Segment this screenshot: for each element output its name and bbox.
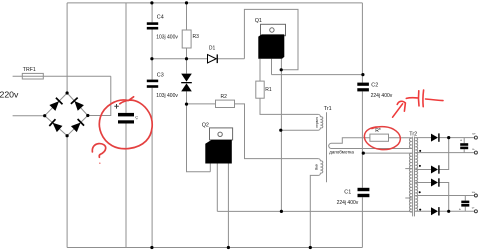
wire Tr2 tap6 to diode D8	[415, 210, 474, 212]
wire Tr2 tap4 to diode D7	[415, 183, 449, 212]
resistor R3	[182, 30, 191, 48]
annotation red question mark	[92, 144, 105, 164]
core Tr2	[413, 137, 415, 217]
bridge diode bottom-right	[71, 119, 84, 132]
wire Q1 leg3 vertical long	[280, 70, 282, 212]
svg-text:Q2: Q2	[202, 123, 209, 129]
annotation red circle around electrolytic	[99, 97, 152, 149]
diode D8 output 2	[431, 207, 438, 215]
transistor Q2	[210, 128, 233, 140]
wire R2 left tap	[187, 103, 216, 105]
svg-text:u-: u-	[472, 147, 475, 151]
winding Tr2 left stub a	[405, 168, 412, 170]
wire Q2 drain long line to Tr2 bottom	[217, 210, 412, 212]
svg-text:C3: C3	[157, 73, 164, 79]
wire Q1 leg 1 to R1	[259, 59, 261, 81]
svg-text:C4: C4	[157, 14, 164, 20]
wire top rail	[67, 2, 362, 4]
winding Tr2 left stub b	[405, 197, 412, 199]
svg-text:u+: u+	[472, 132, 476, 136]
plus mark of electrolytic	[114, 104, 119, 109]
svg-text:224j 400v: 224j 400v	[337, 200, 359, 206]
wire bridge diamond	[45, 93, 88, 136]
wire Q1 leg 2 drop	[271, 59, 273, 75]
svg-text:TRF1: TRF1	[23, 67, 36, 73]
svg-text:R1: R1	[265, 87, 272, 93]
wire Q1 collector loop	[244, 9, 298, 69]
diode D5 output 1	[431, 134, 438, 142]
diode D6	[431, 166, 438, 174]
winding Tr1 aux (dapobmotka) to R*	[329, 138, 412, 149]
svg-text:дапобмотка: дапобмотка	[329, 150, 354, 155]
svg-text:первич: первич	[315, 117, 319, 128]
wire left rail lower (bridge bottom to bottom rail)	[66, 136, 68, 248]
svg-text:103j 400v: 103j 400v	[156, 93, 178, 99]
wire out1 minus rail	[415, 152, 474, 154]
wire fuse line	[13, 75, 111, 77]
wire output cap2 stubs	[464, 196, 466, 212]
svg-text:+: +	[460, 138, 463, 143]
core Tr1	[326, 112, 328, 182]
transistor Q1	[261, 24, 286, 35]
winding Tr1 feedback	[310, 159, 323, 248]
svg-text:103j 400v: 103j 400v	[156, 34, 178, 40]
svg-text:C1: C1	[344, 190, 351, 196]
output capacitor 2	[461, 201, 469, 204]
wire left rail upper (top rail to bridge top)	[66, 3, 68, 93]
wire node line y58.75 to D1	[152, 58, 244, 60]
wire Tr2 tap1 to diode D5	[415, 137, 474, 139]
diode D7	[431, 179, 438, 187]
winding Tr2 right bumps	[415, 138, 417, 212]
svg-text:224j 400v: 224j 400v	[371, 93, 393, 99]
resistor R2	[216, 100, 235, 107]
bridge diode bottom-left	[49, 119, 62, 132]
bridge diode top-right	[71, 98, 84, 111]
wire Q1 mid leg to C2 node	[272, 74, 363, 76]
wire electrolytic cap branch vertical	[125, 3, 127, 248]
svg-text:R2: R2	[221, 94, 228, 100]
svg-text:220v: 220v	[0, 90, 19, 100]
capacitor C1	[358, 188, 370, 191]
annotation red circle around R*	[364, 127, 400, 150]
svg-text:u+: u+	[472, 190, 476, 194]
wire fuse drop to bridge right vertex	[88, 76, 111, 115]
wire AC left stub	[13, 115, 45, 117]
wire R2 right to Tr1 feedback winding	[235, 104, 319, 159]
bridge diode top-left	[49, 98, 62, 111]
fuse TRF1	[22, 73, 43, 79]
diac pair	[181, 74, 192, 82]
resistor R*	[370, 134, 389, 141]
wire out2 minus rail	[415, 195, 474, 197]
resistor R1	[256, 81, 264, 98]
wire output cap1 stubs	[463, 138, 465, 153]
svg-text:C2: C2	[371, 83, 378, 89]
annotation red capacitor sketch	[393, 90, 443, 117]
svg-text:Tr1: Tr1	[324, 106, 332, 112]
wire Tr2 tap3 to diode D6	[415, 138, 449, 170]
capacitor C3	[147, 80, 158, 83]
svg-text:Ç: Ç	[135, 114, 138, 119]
wire R* right to Tr2	[389, 137, 412, 139]
wire C2 node down line to Tr2 winding 2	[363, 152, 412, 154]
wire Q2 right leg to bottom rail	[227, 164, 229, 248]
wire Q2 gate leg	[209, 164, 211, 172]
output terminal 1 minus	[474, 151, 477, 154]
svg-text:D1: D1	[209, 46, 216, 52]
wire C4 C3 branch vertical	[151, 3, 153, 248]
winding Tr1 primary	[281, 114, 323, 130]
svg-text:R*: R*	[375, 128, 381, 134]
output capacitor 1	[460, 143, 468, 146]
diode D1	[208, 55, 217, 63]
wire Q2 mid leg	[216, 164, 218, 212]
svg-text:+: +	[459, 206, 462, 211]
capacitor C4	[147, 22, 158, 25]
phase dots Tr2	[419, 150, 422, 211]
output terminal 2 plus	[474, 194, 477, 197]
winding Tr2 left bumps	[409, 138, 411, 212]
capacitor C2	[357, 83, 369, 86]
wire right rail segments (through C2 and C1)	[361, 3, 363, 248]
svg-text:R3: R3	[193, 34, 200, 40]
wire Q1 leg 3 drop	[280, 59, 282, 70]
svg-text:Вых: Вых	[315, 164, 319, 170]
output terminal 1 plus	[474, 136, 477, 139]
svg-text:Tr2: Tr2	[409, 131, 417, 137]
svg-text:u-: u-	[472, 206, 475, 210]
output terminal 2 minus	[474, 210, 477, 213]
wire R3 diac branch vertical	[187, 3, 211, 172]
svg-text:Q1: Q1	[255, 18, 262, 24]
wire R1 bottom to Tr1 primary top	[260, 98, 318, 114]
wire bottom rail	[67, 247, 362, 249]
electrolytic capacitor (circled)	[118, 113, 134, 117]
